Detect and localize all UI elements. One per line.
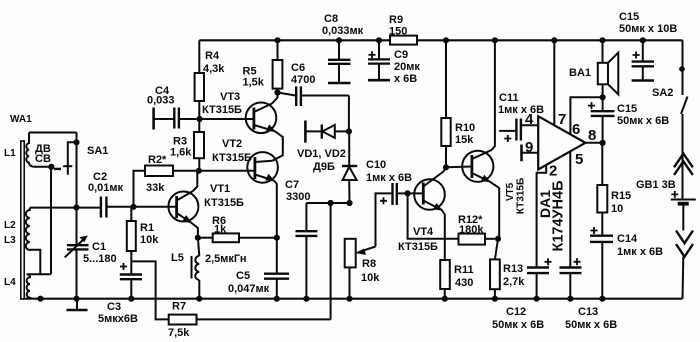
inductor L5 — [192, 238, 202, 302]
svg-text:1k: 1k — [214, 224, 227, 236]
svg-text:R1: R1 — [140, 222, 154, 234]
wire AGC branch from R1 bottom to R7 — [131, 261, 168, 319]
svg-text:VT4: VT4 — [413, 226, 434, 238]
svg-text:2: 2 — [549, 163, 557, 180]
svg-text:КТ315Б: КТ315Б — [516, 178, 527, 214]
wire SV tap down — [50, 167, 52, 274]
svg-text:C10: C10 — [366, 159, 386, 171]
svg-text:0,033мк: 0,033мк — [322, 25, 364, 37]
capacitor C13 — [560, 258, 582, 301]
svg-text:4: 4 — [525, 111, 534, 128]
svg-text:КТ315Б: КТ315Б — [398, 241, 438, 253]
wire R15 chain — [601, 143, 603, 185]
svg-text:C15: C15 — [619, 11, 639, 23]
resistor R1 — [127, 207, 136, 274]
wire AGC down to R7 — [330, 203, 332, 319]
svg-text:15k: 15k — [455, 134, 474, 146]
capacitor C7 — [296, 203, 318, 301]
svg-text:0,047мк: 0,047мк — [228, 283, 270, 295]
resistor R6 — [198, 233, 280, 242]
svg-text:3300: 3300 — [286, 191, 310, 203]
svg-text:1,6k: 1,6k — [170, 147, 192, 159]
pin 2 wire to C12 — [537, 166, 547, 267]
svg-text:2,7k: 2,7k — [503, 276, 525, 288]
battery GB1 — [671, 191, 696, 231]
svg-text:VD1, VD2: VD1, VD2 — [297, 148, 346, 160]
svg-text:1мк х 6В: 1мк х 6В — [498, 104, 544, 116]
pin 7 supply wire — [552, 38, 557, 126]
pin 5 wire to C13 — [569, 151, 571, 267]
svg-text:КТ315Б: КТ315Б — [202, 104, 242, 116]
svg-text:C5: C5 — [236, 270, 250, 282]
capacitor C9 with ground — [368, 38, 390, 80]
svg-text:SA2: SA2 — [652, 87, 673, 99]
capacitor C6 — [278, 86, 349, 106]
resistor R10 — [441, 38, 450, 170]
svg-text:C11: C11 — [499, 92, 519, 104]
wire L1 bottom tap — [34, 166, 52, 168]
op-amp DA1 — [538, 116, 585, 169]
capacitor C10 — [376, 183, 408, 247]
svg-text:C9: C9 — [394, 49, 408, 61]
svg-text:C12: C12 — [506, 306, 526, 318]
svg-text:50мк х 6В: 50мк х 6В — [565, 319, 617, 331]
wire L1 top to SA1 — [29, 132, 77, 134]
wire L3 bottom jog — [33, 250, 40, 275]
diode VD2 — [342, 131, 357, 203]
capacitor C2 — [101, 197, 136, 218]
svg-text:R4: R4 — [205, 50, 220, 62]
svg-text:C8: C8 — [324, 13, 338, 25]
svg-text:10: 10 — [611, 203, 623, 215]
resistor R12 — [408, 193, 501, 244]
svg-text:К174УН4Б: К174УН4Б — [551, 180, 567, 251]
wire VT3 emitter to VT2 collector — [273, 131, 283, 161]
svg-text:C13: C13 — [578, 306, 598, 318]
capacitor C5 — [264, 238, 289, 302]
svg-text:VT2: VT2 — [222, 138, 242, 150]
svg-text:4700: 4700 — [291, 74, 315, 86]
svg-text:50мк х 6В: 50мк х 6В — [492, 319, 544, 331]
label DA1 rotated — [537, 180, 567, 251]
svg-text:R2*: R2* — [148, 154, 167, 166]
inductor L1 — [26, 133, 33, 167]
svg-text:GB1 3В: GB1 3В — [636, 179, 676, 191]
svg-text:50мк х 10В: 50мк х 10В — [619, 23, 677, 35]
svg-text:7,5k: 7,5k — [168, 327, 190, 339]
potentiometer R8 — [345, 239, 376, 302]
svg-text:R9: R9 — [389, 14, 403, 26]
svg-text:7: 7 — [558, 111, 566, 128]
node R4 R3 VT3 base — [197, 116, 202, 121]
svg-text:VT5: VT5 — [505, 182, 516, 201]
wire L4 top — [27, 273, 51, 275]
svg-text:R8: R8 — [362, 258, 376, 270]
svg-text:КТ315Б: КТ315Б — [204, 197, 244, 209]
transistor VT1 — [134, 171, 199, 238]
svg-text:x 6В: x 6В — [394, 73, 417, 85]
svg-text:9: 9 — [525, 139, 533, 156]
node L1/L2 tap — [49, 164, 54, 169]
wire ground rail — [25, 298, 683, 300]
svg-text:C15: C15 — [617, 103, 637, 115]
transistor VT2 — [199, 152, 278, 238]
svg-text:R11: R11 — [454, 264, 474, 276]
svg-text:VT1: VT1 — [210, 183, 230, 195]
capacitor C1 variable — [65, 205, 89, 301]
switch SA1 — [54, 132, 79, 207]
svg-text:6: 6 — [572, 121, 580, 138]
capacitor C8 with ground — [328, 38, 351, 83]
svg-text:C7: C7 — [285, 179, 299, 191]
svg-text:0,033: 0,033 — [147, 95, 175, 107]
svg-text:33k: 33k — [146, 182, 165, 194]
svg-text:5...180: 5...180 — [83, 253, 117, 265]
pin 9 ground — [522, 145, 539, 162]
inductor L2 L3 — [26, 208, 33, 250]
capacitor C3 — [120, 263, 142, 301]
svg-text:R15: R15 — [611, 190, 631, 202]
svg-text:КТ315Б: КТ315Б — [212, 152, 252, 164]
wire L4 bottom to ground rail — [38, 296, 43, 301]
svg-text:L1: L1 — [4, 148, 16, 159]
pin 6 bootstrap wire — [570, 95, 605, 135]
node VT4 base — [405, 191, 410, 196]
capacitor C11 — [499, 119, 538, 143]
svg-text:L4: L4 — [4, 277, 16, 288]
svg-text:5мкх6В: 5мкх6В — [98, 313, 138, 325]
capacitor C4 with ground — [154, 108, 200, 130]
svg-text:C14: C14 — [617, 233, 638, 245]
svg-text:L3: L3 — [4, 235, 16, 246]
label VT5 rotated — [505, 178, 527, 214]
speaker BA1 — [598, 38, 619, 111]
svg-text:R13: R13 — [503, 263, 523, 275]
svg-text:150: 150 — [389, 26, 407, 38]
resistor R9 — [390, 36, 417, 45]
resistor R3 — [194, 119, 204, 173]
svg-text:C3: C3 — [107, 301, 121, 313]
wire L2 top to C2 — [30, 207, 101, 209]
switch SA2 — [680, 40, 688, 199]
svg-text:1мк х 6В: 1мк х 6В — [617, 246, 663, 258]
svg-text:Д9Б: Д9Б — [313, 161, 335, 173]
svg-text:C1: C1 — [92, 241, 106, 253]
svg-text:5: 5 — [575, 151, 583, 168]
svg-text:SA1: SA1 — [87, 145, 108, 157]
svg-text:BA1: BA1 — [569, 67, 591, 79]
svg-text:L2: L2 — [4, 220, 16, 231]
contact chevrons upper — [674, 154, 693, 175]
resistor R7 — [169, 315, 331, 325]
svg-text:2,5мкГн: 2,5мкГн — [205, 253, 247, 265]
transistor VT4 — [408, 167, 446, 260]
capacitor C15 supply with ground — [632, 38, 654, 81]
transistor VT3 — [200, 93, 278, 134]
resistor R13 — [490, 239, 500, 302]
transistor VT5 — [446, 38, 499, 239]
wire top supply rail — [199, 39, 682, 41]
diode VD1 with ground — [305, 121, 349, 143]
wire C6 to detector node — [346, 96, 351, 134]
capacitor C14 — [590, 227, 613, 301]
svg-text:СВ: СВ — [35, 153, 51, 165]
svg-text:1,5k: 1,5k — [243, 77, 265, 89]
svg-text:10k: 10k — [140, 234, 159, 246]
resistor R11 — [440, 260, 450, 301]
svg-text:0,01мк: 0,01мк — [88, 182, 124, 194]
svg-text:C6: C6 — [291, 62, 305, 74]
svg-text:L5: L5 — [171, 252, 184, 264]
svg-text:20мк: 20мк — [394, 61, 420, 73]
antenna WA1 ferrite rod — [21, 141, 24, 299]
wire detector node left to C7 and AGC — [306, 200, 349, 205]
svg-text:8: 8 — [588, 127, 596, 144]
svg-text:430: 430 — [455, 277, 473, 289]
svg-text:50мк х 6В: 50мк х 6В — [617, 115, 669, 127]
svg-text:180k: 180k — [459, 224, 484, 236]
ground symbol below rail — [67, 299, 88, 310]
resistor R15 — [597, 185, 607, 235]
capacitor C12 — [527, 258, 552, 301]
resistor R5 — [273, 38, 283, 95]
contact chevrons lower — [676, 231, 693, 299]
capacitor C15 output — [588, 102, 615, 143]
pin 8 output wire — [585, 140, 605, 145]
svg-text:WA1: WA1 — [10, 114, 32, 125]
resistor R4 — [195, 40, 204, 119]
svg-text:1мк х 6В: 1мк х 6В — [366, 172, 412, 184]
node detector output — [347, 200, 352, 205]
svg-text:VT3: VT3 — [220, 91, 240, 103]
resistor R2 — [134, 166, 199, 207]
svg-text:R7: R7 — [172, 301, 186, 313]
svg-text:4,3k: 4,3k — [203, 63, 225, 75]
svg-text:R10: R10 — [455, 122, 475, 134]
inductor L4 — [27, 274, 34, 298]
node VT1 emitter junction — [195, 235, 200, 240]
svg-text:10k: 10k — [361, 272, 380, 284]
